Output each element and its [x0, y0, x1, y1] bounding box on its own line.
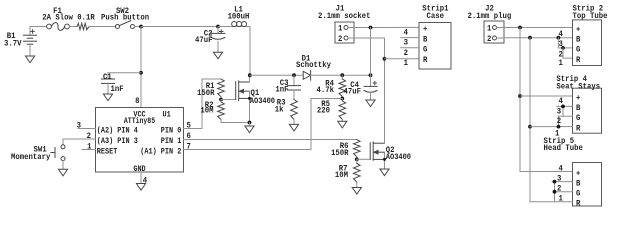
svg-text:Seat Stays: Seat Stays	[556, 82, 600, 91]
wire rail to C2	[141, 26, 218, 28]
svg-text:3: 3	[559, 40, 564, 49]
svg-text:R: R	[576, 124, 581, 133]
strip1 pin G stub	[401, 48, 419, 58]
wire J1 pin2	[354, 38, 385, 59]
node R4 tap	[340, 73, 344, 77]
svg-text:100uH: 100uH	[228, 13, 250, 22]
wire drain to D1	[250, 74, 303, 76]
wire gate Q1	[221, 99, 236, 101]
svg-text:G: G	[423, 46, 428, 55]
wire plus to strip5	[520, 171, 573, 173]
svg-text:(A1) PIN 2: (A1) PIN 2	[140, 147, 181, 156]
ground for Q1	[245, 123, 254, 133]
wire Q2 drain up	[384, 57, 386, 143]
svg-text:4: 4	[404, 28, 409, 37]
connector Strip5 Head Tube	[544, 137, 602, 209]
svg-text:+: +	[423, 25, 428, 34]
svg-text:1: 1	[87, 142, 92, 151]
svg-text:1nF: 1nF	[275, 85, 288, 94]
svg-text:47uF: 47uF	[195, 36, 213, 45]
svg-text:2A Slow 0.1R: 2A Slow 0.1R	[42, 14, 95, 23]
ground for Q2	[380, 169, 389, 176]
connector Strip2 Top Tube	[573, 4, 608, 65]
svg-text:(A2) PIN 4: (A2) PIN 4	[97, 126, 138, 135]
resistor R7	[335, 159, 360, 187]
ground for R7	[352, 188, 361, 195]
wire Q1 drain up	[249, 75, 251, 82]
node strip2 BG tie	[557, 36, 561, 40]
node C4 output corner	[369, 73, 373, 77]
svg-text:ATTiny85: ATTiny85	[124, 117, 155, 126]
pin 2 wire to SW1	[63, 132, 96, 141]
pin 4 stub GND	[141, 172, 147, 186]
strip4 B stub	[557, 105, 573, 107]
IC U1 ATTiny85 box	[96, 108, 184, 173]
ground for SW1	[58, 161, 67, 176]
svg-text:10M: 10M	[200, 106, 213, 115]
wire J2 pin2 to strip2 B	[504, 37, 573, 39]
svg-text:8: 8	[135, 97, 140, 106]
wire to C1	[108, 73, 141, 79]
ground for R3	[289, 124, 298, 131]
wire strip2 BG tie	[558, 38, 572, 48]
wire plus net down	[519, 28, 521, 172]
svg-text:G: G	[576, 46, 581, 55]
svg-text:4: 4	[559, 30, 564, 39]
resistor R3	[275, 90, 298, 124]
svg-text:1: 1	[338, 24, 343, 33]
node R6 R7 junction	[355, 157, 359, 161]
svg-text:RESET: RESET	[97, 147, 118, 156]
svg-text:1: 1	[559, 59, 564, 68]
svg-text:Schottky: Schottky	[296, 61, 331, 70]
pin 3 stub	[77, 121, 96, 130]
svg-text:C1: C1	[103, 73, 112, 82]
node R4 R5 feedback junction	[340, 97, 344, 101]
node J1 out	[369, 26, 373, 30]
node strip2 GR tie	[561, 46, 565, 50]
svg-text:B: B	[576, 179, 581, 188]
strip1 pin 1 label	[404, 59, 409, 68]
svg-text:AO3400: AO3400	[386, 153, 411, 162]
resistor R2	[200, 100, 224, 123]
wire R2 to ground node	[221, 122, 250, 124]
strip4 BG tie	[559, 105, 573, 117]
svg-text:2: 2	[487, 35, 492, 44]
ground for R5	[338, 121, 347, 128]
svg-text:3: 3	[557, 107, 562, 116]
inductor L1	[228, 6, 250, 27]
pin 1 stub RESET	[82, 142, 96, 151]
fuse F1	[42, 7, 95, 30]
svg-text:220: 220	[317, 106, 330, 115]
strip5 B stub	[552, 181, 573, 183]
svg-text:B: B	[576, 104, 581, 113]
node C3 tap	[292, 73, 296, 77]
ground for U1	[136, 184, 145, 191]
wire VCC down to U1 pin8	[140, 27, 142, 108]
wire C2 to L1	[218, 26, 250, 28]
wire fuse to resistor	[69, 26, 77, 28]
transistor Q1	[236, 81, 275, 106]
svg-text:R: R	[576, 56, 581, 65]
wire to strip4 R	[530, 126, 559, 128]
svg-text:150R: 150R	[331, 149, 349, 158]
svg-text:2: 2	[557, 117, 562, 126]
svg-text:1: 1	[487, 24, 492, 33]
svg-text:Case: Case	[427, 12, 445, 21]
svg-text:2: 2	[338, 35, 343, 44]
diode D1 Schottky	[296, 55, 331, 81]
ground for B1	[25, 56, 34, 63]
wire feedback PIN2	[184, 99, 343, 150]
strip1 pin 4 label	[404, 28, 409, 37]
battery B1	[4, 27, 36, 57]
node R1 R2 junction	[219, 98, 223, 102]
resistor 0.1R	[77, 23, 89, 29]
svg-text:Top Tube: Top Tube	[573, 12, 608, 21]
wire R net to strip1	[385, 58, 420, 60]
strip4 labels	[555, 97, 563, 139]
svg-text:G: G	[576, 114, 581, 123]
U1 labels	[97, 111, 182, 174]
svg-text:2.1mm socket: 2.1mm socket	[318, 12, 371, 21]
ground for C4	[366, 92, 375, 107]
connector Strip1 Case	[419, 4, 451, 69]
wire J2 pin1 to strip2	[504, 27, 573, 29]
strip1 pin B stub	[401, 38, 419, 48]
svg-text:1: 1	[404, 59, 409, 68]
switch SW1	[11, 139, 65, 162]
svg-text:B: B	[576, 36, 581, 45]
capacitor C1	[102, 73, 124, 94]
wire D1 to output node	[311, 74, 371, 76]
svg-text:47uF: 47uF	[344, 87, 362, 96]
capacitor C3	[275, 75, 300, 94]
svg-text:2.1mm plug: 2.1mm plug	[468, 12, 512, 21]
svg-text:2: 2	[404, 49, 409, 58]
svg-text:Push button: Push button	[101, 14, 149, 23]
pin 7 label	[187, 142, 192, 151]
ground for C2	[213, 41, 222, 59]
svg-text:(A3) PIN 3: (A3) PIN 3	[97, 137, 138, 146]
wire gate Q2	[357, 158, 370, 160]
connector J1	[318, 4, 371, 43]
svg-text:3: 3	[404, 39, 409, 48]
capacitor C2	[195, 27, 225, 45]
strip2 labels	[559, 30, 564, 68]
svg-text:3.7V: 3.7V	[4, 40, 22, 49]
connector J2	[468, 4, 512, 43]
svg-text:4: 4	[559, 165, 564, 174]
resistor R4	[317, 75, 346, 98]
capacitor C4	[344, 75, 377, 96]
wire L1 to drain drop	[249, 27, 251, 76]
svg-text:1k: 1k	[275, 105, 284, 114]
node C1 tap	[139, 71, 143, 75]
svg-text:Head Tube: Head Tube	[544, 144, 584, 153]
svg-text:4.7k: 4.7k	[317, 86, 335, 95]
svg-text:3: 3	[557, 174, 562, 183]
wire strip2 GR tie	[563, 48, 573, 58]
svg-text:U1: U1	[163, 111, 171, 120]
wire Q1 source down	[248, 91, 251, 122]
node J2 plus net	[518, 26, 522, 30]
svg-text:G: G	[576, 190, 581, 199]
svg-text:R: R	[576, 200, 581, 209]
svg-text:+: +	[576, 25, 581, 34]
wire Q2 source down	[383, 152, 386, 169]
svg-text:3: 3	[77, 121, 82, 130]
pin 5 wire to R1	[184, 79, 222, 130]
svg-text:B: B	[423, 35, 428, 44]
svg-text:2: 2	[557, 184, 562, 193]
node J2 pin2 net	[528, 36, 532, 40]
svg-text:R: R	[423, 56, 428, 65]
svg-text:5: 5	[187, 121, 192, 130]
connector Strip4 Seat Stays	[556, 75, 601, 133]
svg-text:AO3400: AO3400	[250, 97, 275, 106]
svg-text:4: 4	[559, 97, 564, 106]
svg-text:PIN 1: PIN 1	[161, 137, 182, 146]
resistor R6	[331, 140, 360, 160]
wire pin2 net down	[529, 38, 531, 202]
wire to strip4 plus	[520, 95, 573, 97]
node Q1 source ground	[248, 121, 252, 125]
node C2 tap	[216, 25, 220, 29]
switch SW2	[101, 7, 149, 28]
wire output vertical	[370, 28, 372, 76]
node strip4 plus tap	[518, 94, 522, 98]
transistor Q2	[370, 142, 411, 162]
wire battery to fuse	[30, 26, 47, 28]
ground for C1	[103, 83, 112, 100]
wire SW2 to VCC junction	[135, 26, 142, 28]
svg-text:+: +	[576, 94, 581, 103]
wire J1 pin1 to strip1	[354, 26, 419, 28]
svg-text:10M: 10M	[335, 171, 348, 180]
resistor R5	[317, 99, 346, 122]
node Q1 drain	[248, 73, 252, 77]
svg-text:PIN 0: PIN 0	[161, 126, 182, 135]
wire pin6 to R6	[184, 139, 357, 141]
svg-text:+: +	[576, 169, 581, 178]
strip4 GR tie	[557, 116, 573, 128]
strip5 tie ladder	[553, 180, 573, 202]
pin 6 label	[187, 132, 192, 141]
svg-text:150R: 150R	[197, 89, 215, 98]
resistor R1	[197, 79, 224, 100]
node VCC junction	[139, 25, 143, 29]
strip5 labels	[557, 165, 563, 204]
node strip4 R tap	[528, 125, 532, 129]
svg-text:2: 2	[87, 132, 92, 141]
svg-text:1: 1	[559, 195, 564, 204]
svg-text:1nF: 1nF	[111, 85, 124, 94]
svg-text:GND: GND	[133, 165, 145, 174]
node R net	[383, 57, 387, 61]
svg-text:Momentary: Momentary	[11, 153, 51, 162]
wire resistor to SW2	[89, 26, 116, 28]
pin 8 label	[135, 97, 140, 106]
wire pin2 to strip5 R	[530, 201, 555, 203]
